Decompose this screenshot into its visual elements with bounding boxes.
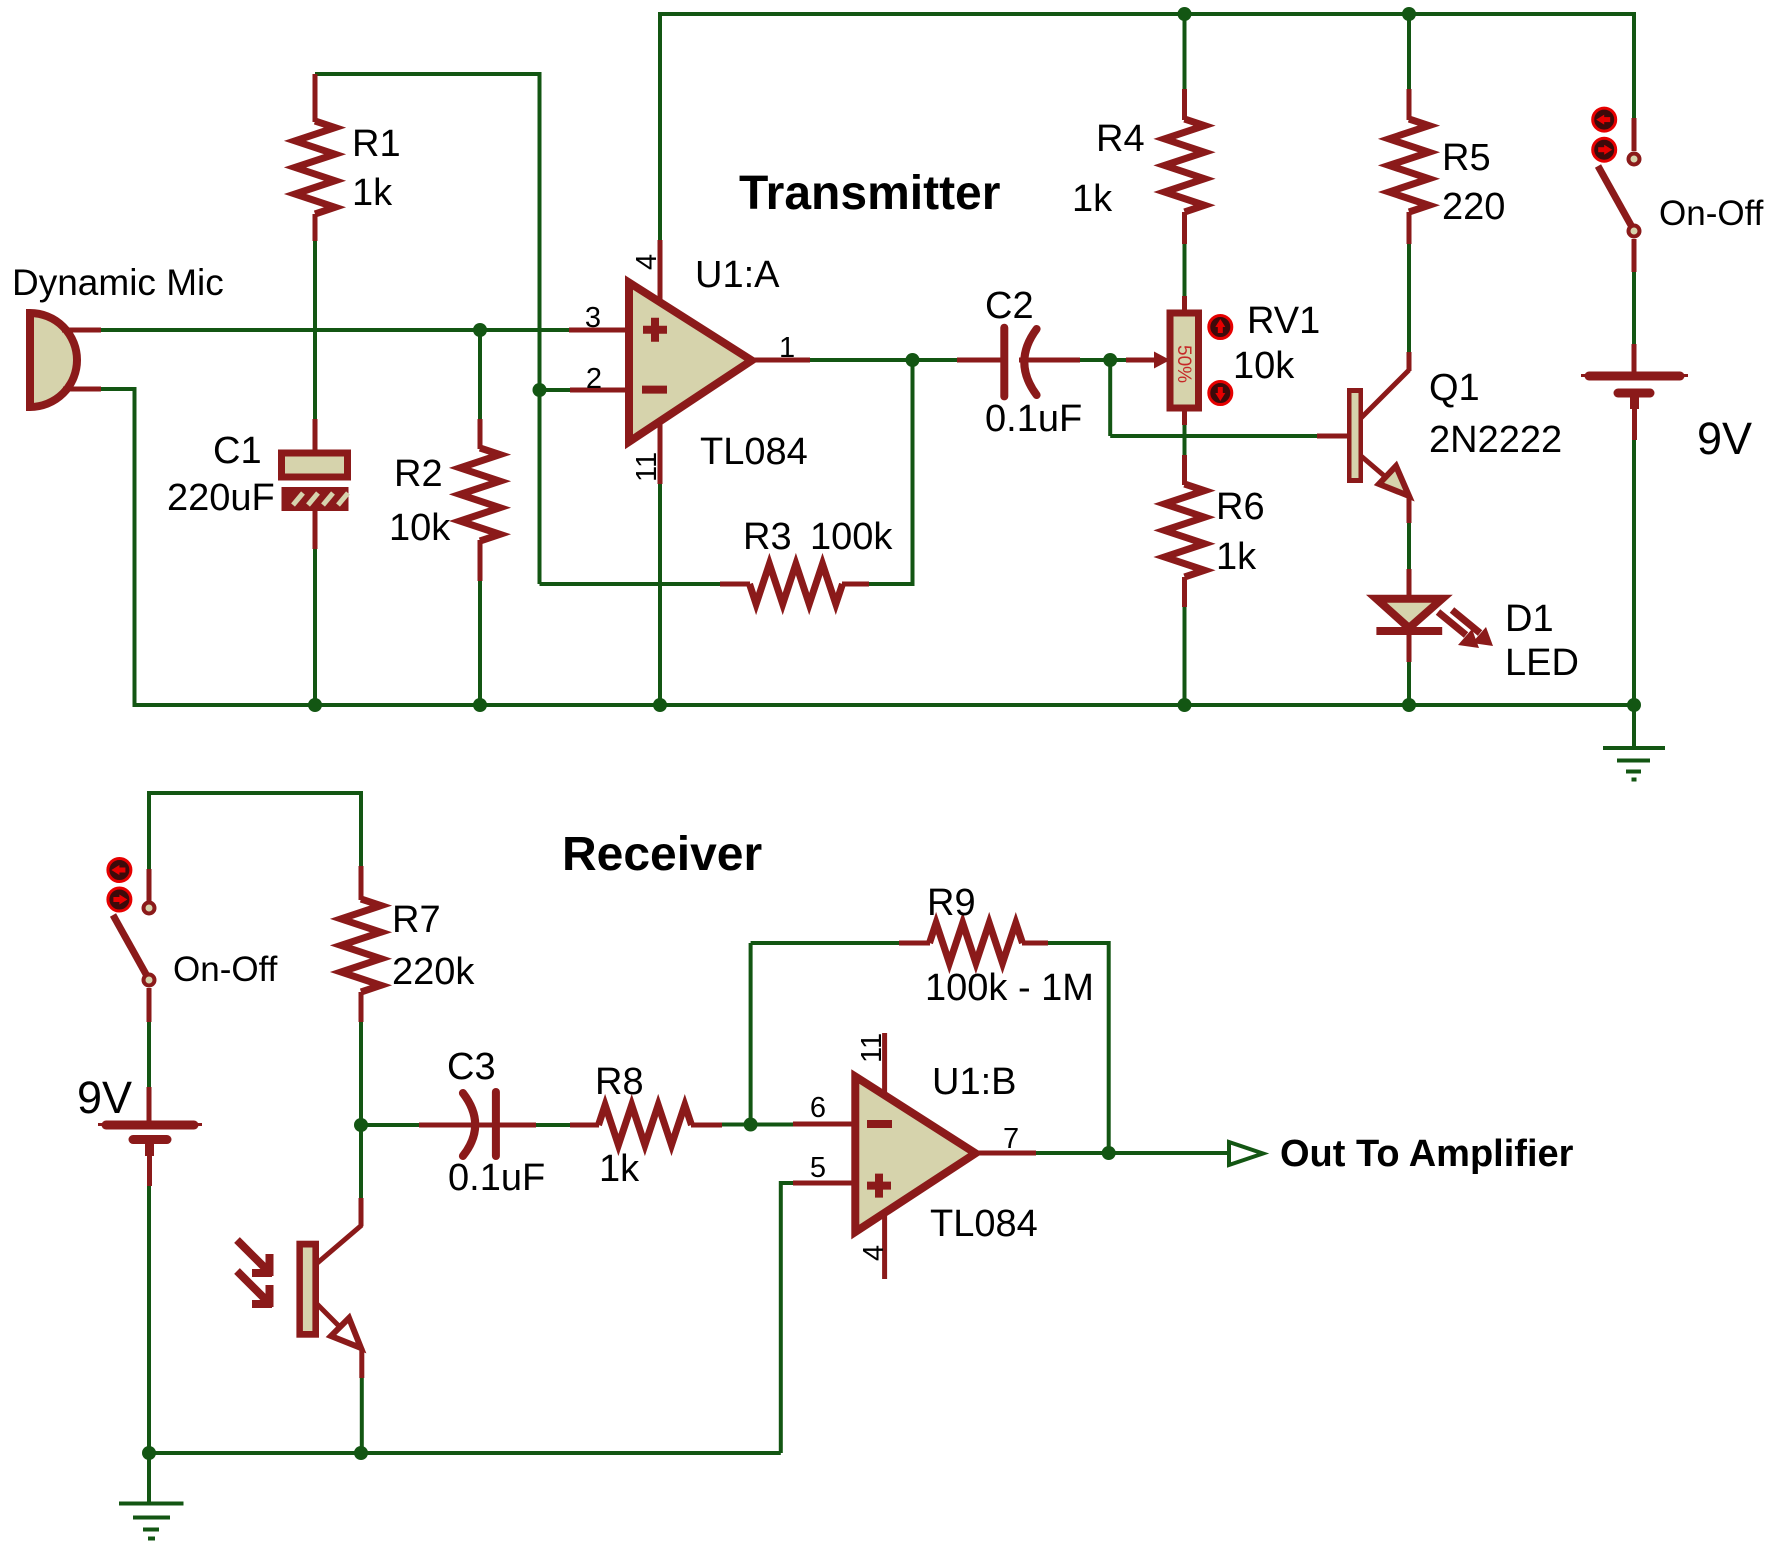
wire: D1 to ground rail (1407, 661, 1411, 705)
SW2 contact bottom (144, 975, 155, 986)
node: R7/C3 junction (354, 1118, 368, 1132)
svg-text:C2: C2 (985, 285, 1034, 327)
svg-text:R3: R3 (743, 516, 792, 558)
output arrow to amplifier (1229, 1142, 1263, 1165)
svg-text:50%: 50% (1173, 345, 1194, 383)
svg-text:220k: 220k (392, 951, 475, 993)
wire: C1 to ground rail (313, 548, 317, 705)
LED D1 triangle (1376, 599, 1442, 628)
phototransistor light arrow 2 (237, 1271, 272, 1307)
node: rail R2 junction (473, 698, 487, 712)
capacitor C3 plate left (curved) (463, 1093, 475, 1156)
resistor R1 (295, 121, 335, 214)
resistor R9 pin left (899, 941, 930, 946)
battery BT2 pin top (147, 1087, 152, 1121)
svg-text:9V: 9V (1697, 413, 1752, 464)
svg-text:C1: C1 (213, 430, 262, 472)
switch SW2 icon up (108, 859, 131, 882)
svg-text:220uF: 220uF (167, 477, 275, 519)
phototransistor emitter lead (316, 1303, 362, 1378)
svg-text:R9: R9 (927, 882, 976, 924)
op-amp U1:A body (629, 283, 752, 442)
capacitor C1 plate bottom (hatched) (282, 487, 349, 511)
U1:A pin 2 stub (570, 388, 636, 393)
SW1 lever (1598, 166, 1632, 227)
node: R8/pin6/R9 junction (744, 1118, 758, 1132)
SW1 contact top (1629, 154, 1640, 165)
battery BT2 negative plate (133, 1139, 167, 1156)
potentiometer RV1 body (1170, 313, 1199, 408)
svg-text:10k: 10k (389, 507, 451, 549)
wire: pin2 tap (540, 388, 572, 392)
Q1 emitter arrow (1379, 466, 1409, 496)
node: rail phototransistor junction (354, 1446, 368, 1460)
RV1 adjust up icon (1209, 316, 1232, 339)
capacitor C3 pin left (419, 1123, 493, 1128)
wire: R8 to pin6 node (721, 1123, 794, 1127)
svg-text:1k: 1k (1072, 178, 1113, 220)
battery BT2 pin bottom (147, 1156, 152, 1186)
resistor R5 pin top (1407, 89, 1412, 120)
U1:B minus sign (867, 1120, 892, 1128)
wire: R5 to Q1 collector (1407, 243, 1411, 353)
capacitor C1 pin bottom (313, 510, 318, 549)
wire: R4 to RV1 (1183, 243, 1187, 297)
node: mic/R2/pin3 junction (473, 323, 487, 337)
resistor R4 pin top (1182, 89, 1187, 120)
node: rail C1 junction (308, 698, 322, 712)
svg-text:1k: 1k (1216, 536, 1257, 578)
U1:A minus sign (642, 386, 667, 394)
svg-text:R5: R5 (1442, 137, 1491, 179)
U1:A plus sign (643, 318, 667, 342)
battery BT1 negative plate (1618, 393, 1650, 409)
svg-text:D1: D1 (1505, 598, 1554, 640)
U1:B pin 7 stub (972, 1151, 1036, 1156)
SW1 contact bottom (1629, 226, 1640, 237)
capacitor C2 plate right (curved) (1024, 329, 1036, 395)
wire: receiver ground rail (149, 1451, 781, 1455)
wire: U1:A output (809, 358, 958, 362)
svg-text:LED: LED (1505, 642, 1579, 684)
svg-text:11: 11 (631, 452, 663, 482)
wire: switch to battery (1632, 271, 1636, 345)
battery BT2 positive plate (98, 1123, 202, 1127)
resistor R7 pin top (359, 866, 364, 900)
ground symbol (receiver) (119, 1504, 184, 1539)
wire: C3 to R8 (535, 1123, 571, 1127)
D1 pin bottom (1407, 634, 1412, 662)
U1:A pin 1 stub (748, 358, 810, 363)
Q1 base lead (1317, 434, 1348, 439)
resistor R1 pin bottom (313, 214, 318, 241)
U1:A pin 3 stub (569, 328, 636, 333)
resistor R4 pin bottom (1182, 212, 1187, 244)
wire: top rail to U1:A pin 4 (658, 12, 662, 240)
wire: ground rail to GND symbol (1632, 705, 1636, 747)
resistor R9 pin right (1022, 941, 1048, 946)
Q1 emitter lead (1361, 456, 1409, 523)
switch SW2 icon down (108, 888, 131, 911)
resistor R3 pin left (720, 582, 750, 587)
svg-text:TL084: TL084 (700, 431, 808, 473)
resistor R9 (930, 923, 1023, 963)
wire: inverting input vertical (538, 72, 542, 584)
U1:B pin 4 stub (882, 1215, 887, 1279)
svg-text:0.1uF: 0.1uF (448, 1157, 545, 1199)
mic pin top (62, 328, 101, 333)
wire: Q1 emitter to D1 (1407, 522, 1411, 570)
node: top rail R5 junction (1402, 7, 1416, 21)
wire: switch drop (receiver) (147, 791, 151, 869)
wire: RV1 to R6 (1183, 407, 1187, 456)
node: rail R6 junction (1178, 698, 1192, 712)
wire: to R3 left (540, 582, 722, 586)
svg-text:TL084: TL084 (930, 1203, 1038, 1245)
capacitor C2 pin left (957, 358, 1001, 363)
wire: wiper node down (1108, 360, 1112, 436)
svg-text:3: 3 (585, 302, 601, 334)
svg-text:R2: R2 (394, 453, 443, 495)
svg-text:2N2222: 2N2222 (1429, 419, 1562, 461)
LED D1 cathode bar (1376, 627, 1442, 635)
svg-text:5: 5 (810, 1152, 826, 1184)
U1:B plus sign (867, 1174, 891, 1198)
wire: top rail to switch (1632, 12, 1636, 118)
wire: +9V top rail (660, 12, 1634, 16)
svg-text:R6: R6 (1216, 486, 1265, 528)
resistor R8 pin right (691, 1123, 722, 1128)
wire: R2 top (478, 330, 482, 420)
svg-text:On-Off: On-Off (173, 950, 278, 989)
svg-text:11: 11 (856, 1033, 888, 1063)
svg-text:4: 4 (858, 1245, 890, 1261)
wire: mic+ to U1:A pin 3 (100, 328, 570, 332)
wire: bottom ground rail (133, 703, 1635, 707)
D1 pin top (1407, 569, 1412, 600)
resistor R5 pin bottom (1407, 212, 1412, 244)
RV1 pin bottom (1182, 406, 1187, 425)
dynamic mic symbol (30, 313, 77, 407)
node: rail battery junction (1627, 698, 1641, 712)
node: output junction (receiver) (1102, 1146, 1116, 1160)
wire: top rail to R5 (1407, 12, 1411, 90)
ground symbol (transmitter) (1603, 748, 1665, 780)
wire: feedback to R9 (751, 941, 900, 945)
switch SW1 icon down (1593, 138, 1616, 161)
capacitor C2 plate left (1000, 328, 1008, 397)
wire: C3 left link (361, 1123, 420, 1127)
svg-text:0.1uF: 0.1uF (985, 398, 1082, 440)
svg-text:RV1: RV1 (1247, 300, 1320, 342)
SW2 pin top (147, 869, 152, 901)
U1:B pin 6 stub (793, 1122, 862, 1127)
svg-text:6: 6 (810, 1092, 826, 1124)
wire: switch to battery (receiver) (147, 1021, 151, 1088)
SW2 contact top (144, 903, 155, 914)
resistor R8 (599, 1105, 692, 1145)
U1:B pin 5 stub (793, 1181, 862, 1186)
wire: U1:A pin 11 to ground rail (658, 484, 662, 705)
resistor R6 pin top (1182, 455, 1187, 485)
wire: C2 to wiper node (1080, 358, 1126, 362)
node: inverting input junction (533, 383, 547, 397)
svg-text:On-Off: On-Off (1659, 194, 1764, 233)
wire: feedback vertical (749, 943, 753, 1125)
wire: pin5 to rail (779, 1181, 783, 1453)
wire: battery to ground rail (1632, 439, 1636, 705)
switch SW1 icon up (1593, 108, 1616, 131)
wire: top rail to R4 (1183, 12, 1187, 90)
capacitor C1 plate top (282, 453, 348, 477)
resistor R3 (750, 564, 843, 604)
wire: receiver top link (149, 791, 361, 795)
capacitor C3 pin right (496, 1123, 536, 1128)
svg-text:1k: 1k (599, 1148, 640, 1190)
resistor R7 (341, 899, 381, 992)
wire: R7 drop (359, 791, 363, 867)
svg-text:220: 220 (1442, 186, 1505, 228)
SW2 lever (113, 915, 147, 976)
svg-text:Q1: Q1 (1429, 367, 1480, 409)
wire: phototransistor emitter to rail (360, 1377, 364, 1453)
wire: R3 right to output (868, 358, 913, 584)
phototransistor emitter arrow (331, 1318, 361, 1348)
SW1 pin top (1632, 118, 1637, 151)
node: rail D1 junction (1402, 698, 1416, 712)
resistor R4 (1165, 119, 1205, 212)
mic pin bottom (63, 387, 101, 392)
node: C2/RV1 wiper junction (1103, 353, 1117, 367)
wire: R6 to ground rail (1183, 606, 1187, 705)
U1:A pin 11 stub (658, 424, 663, 484)
svg-text:R4: R4 (1096, 118, 1145, 160)
resistor R2 pin bottom (478, 540, 483, 581)
battery BT1 positive plate (1581, 374, 1688, 378)
U1:B pin 11 stub (882, 1033, 887, 1095)
node: U1:A output junction (906, 353, 920, 367)
svg-text:Dynamic Mic: Dynamic Mic (12, 262, 224, 303)
wire: output to arrow (1035, 1151, 1227, 1155)
LED D1 emission arrow 2 (1452, 610, 1493, 646)
svg-text:10k: 10k (1233, 345, 1295, 387)
wire: R1 top feedback link (315, 72, 540, 76)
svg-text:U1:A: U1:A (695, 254, 780, 296)
phototransistor collector lead (315, 1198, 362, 1265)
wire: wiper node to Q1 base (1110, 434, 1317, 438)
svg-text:U1:B: U1:B (932, 1061, 1016, 1103)
Q1 collector lead (1361, 352, 1409, 418)
svg-text:100k: 100k (810, 516, 893, 558)
svg-text:100k - 1M: 100k - 1M (925, 967, 1094, 1009)
battery BT1 pin top (1632, 344, 1637, 372)
resistor R8 pin left (570, 1123, 599, 1128)
resistor R2 (460, 448, 500, 541)
svg-text:Transmitter: Transmitter (739, 167, 1000, 220)
resistor R3 pin right (842, 582, 869, 587)
wire: R9 to output node (1047, 943, 1109, 1153)
resistor R7 pin bottom (359, 992, 364, 1022)
resistor R5 (1389, 119, 1429, 212)
wire: rail to GND (receiver) (147, 1453, 151, 1502)
svg-text:Out To Amplifier: Out To Amplifier (1280, 1133, 1574, 1175)
LED D1 emission arrow 1 (1438, 612, 1479, 648)
capacitor C2 pin right (1019, 358, 1080, 363)
battery BT1 pin bottom (1632, 409, 1637, 440)
wire: battery to rail (receiver) (147, 1185, 151, 1453)
svg-text:4: 4 (631, 254, 663, 270)
op-amp U1:B body (855, 1077, 975, 1233)
svg-text:1: 1 (779, 332, 795, 364)
RV1 pin top (1182, 296, 1187, 315)
SW2 pin bottom (147, 988, 152, 1022)
capacitor C1 pin top (313, 419, 318, 455)
resistor R1 pin top (313, 74, 318, 122)
wire: R2 bottom (478, 580, 482, 705)
svg-text:R1: R1 (352, 123, 401, 165)
svg-text:R7: R7 (392, 899, 441, 941)
svg-text:C3: C3 (447, 1046, 496, 1088)
resistor R6 pin bottom (1182, 577, 1187, 607)
resistor R6 (1165, 484, 1205, 577)
svg-text:1k: 1k (352, 172, 393, 214)
svg-text:Receiver: Receiver (562, 828, 762, 881)
svg-text:7: 7 (1003, 1123, 1019, 1155)
node: rail pin11 junction (653, 698, 667, 712)
phototransistor light arrow 1 (237, 1240, 272, 1276)
node: top rail R4 junction (1178, 7, 1192, 21)
resistor R2 pin top (478, 419, 483, 449)
U1:A pin 4 stub (658, 240, 663, 300)
phototransistor base bar (296, 1241, 319, 1338)
transistor Q1 base bar (1347, 388, 1363, 483)
svg-text:2: 2 (586, 363, 602, 395)
svg-text:9V: 9V (77, 1072, 132, 1123)
wire: pin5 link (781, 1181, 794, 1185)
wire: R7 to node (359, 1021, 363, 1199)
SW1 pin bottom (1632, 239, 1637, 272)
capacitor C3 plate right (492, 1092, 500, 1156)
node: rail battery junction (receiver) (142, 1446, 156, 1460)
RV1 adjust down icon (1209, 382, 1232, 405)
wire: R1 to C1 (313, 240, 317, 420)
svg-text:R8: R8 (595, 1061, 644, 1103)
wire: mic- down (100, 389, 135, 705)
RV1 wiper arrow (1126, 352, 1170, 369)
